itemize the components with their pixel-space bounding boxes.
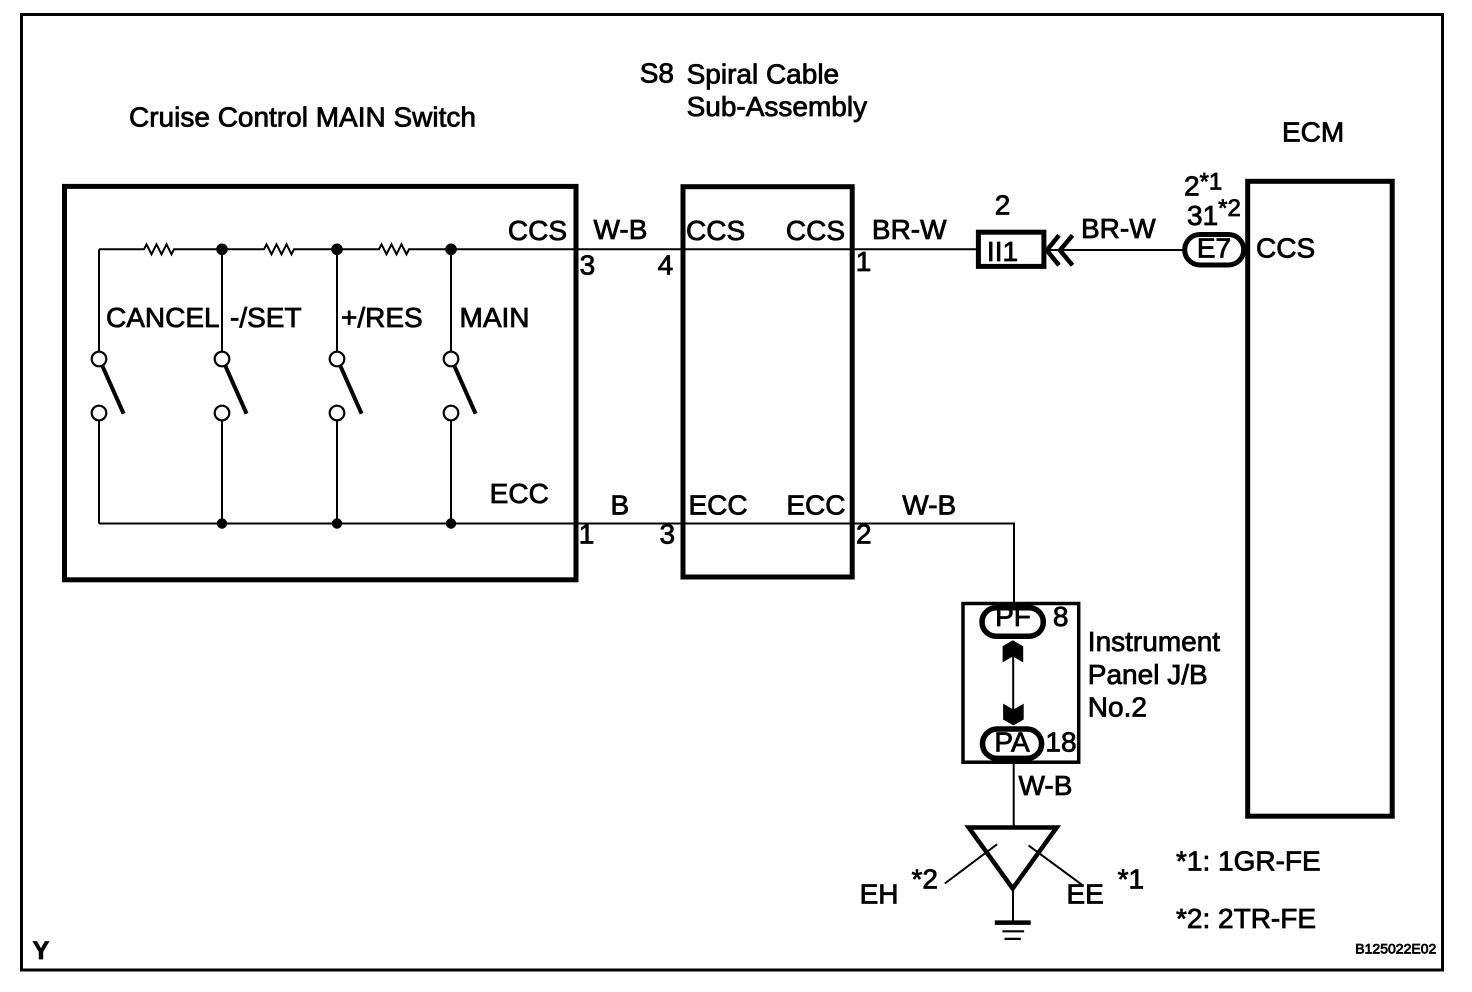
svg-text:W-B: W-B [1019, 770, 1073, 801]
svg-text:MAIN: MAIN [460, 302, 530, 333]
wire: PA to ground triangle [1013, 762, 1015, 826]
svg-text:B: B [610, 490, 629, 521]
wire: SET branch vertical [221, 249, 223, 352]
svg-text:EE: EE [1067, 879, 1104, 910]
connector II1 [978, 232, 1044, 266]
ECM box [1248, 181, 1393, 816]
svg-text:EH: EH [860, 879, 899, 910]
svg-text:1: 1 [856, 246, 872, 277]
svg-text:2: 2 [995, 190, 1011, 221]
leader line EH [945, 844, 997, 883]
svg-text:BR-W: BR-W [1081, 213, 1156, 244]
svg-text:ECM: ECM [1282, 116, 1344, 147]
svg-text:18: 18 [1045, 727, 1076, 758]
node: junction dot SET top [216, 244, 228, 256]
svg-text:CCS: CCS [786, 215, 845, 246]
node: junction dot SET bottom [217, 518, 227, 528]
svg-text:CCS: CCS [1256, 233, 1315, 264]
arrow up (inside J/B) [1003, 640, 1024, 662]
svg-text:W-B: W-B [902, 490, 956, 521]
svg-text:ECC: ECC [490, 478, 549, 509]
wire: triangle to ground [1012, 889, 1014, 922]
leader line EE [1029, 845, 1082, 884]
svg-text:PF: PF [995, 601, 1031, 632]
wire: MAIN lower vertical [450, 420, 452, 523]
svg-text:4: 4 [658, 250, 674, 281]
svg-text:3: 3 [660, 519, 676, 550]
svg-text:2: 2 [856, 519, 872, 550]
switch assembly box (Cruise Control MAIN Switch) [65, 186, 577, 579]
svg-text:S8: S8 [640, 58, 674, 89]
svg-text:No.2: No.2 [1088, 692, 1147, 723]
spiral cable box S8 [683, 187, 852, 577]
node: junction dot MAIN top [445, 244, 457, 256]
node: junction dot RES bottom [332, 518, 342, 528]
svg-text:Y: Y [33, 937, 50, 965]
svg-text:*2: *2 [912, 864, 938, 895]
svg-text:CCS: CCS [508, 215, 567, 246]
svg-text:+/RES: +/RES [341, 302, 423, 333]
wire: CANCEL lower vertical [98, 420, 100, 523]
switch +/RES [330, 302, 423, 420]
wire: RES lower vertical [336, 420, 338, 523]
connector PF [982, 608, 1043, 636]
svg-text:Instrument: Instrument [1088, 626, 1220, 657]
connector PA [983, 729, 1042, 758]
svg-text:PA: PA [994, 727, 1030, 758]
wire: RES branch vertical [336, 249, 338, 352]
svg-text:8: 8 [1053, 601, 1069, 632]
svg-text:B125022E02: B125022E02 [1355, 941, 1436, 957]
svg-text:ECC: ECC [786, 490, 845, 521]
svg-text:BR-W: BR-W [872, 214, 947, 245]
node: junction dot MAIN bottom [446, 518, 456, 528]
switch MAIN [444, 302, 530, 420]
arrow down (inside J/B) [1003, 704, 1024, 726]
ground triangle (splice) [969, 828, 1057, 889]
wire: CANCEL branch vertical [98, 249, 100, 352]
switch CANCEL [92, 302, 220, 420]
junction block: Instrument Panel J/B No.2 [963, 604, 1079, 763]
wire: MAIN branch vertical [450, 249, 452, 352]
node: junction dot RES top [331, 244, 343, 256]
svg-text:Sub-Assembly: Sub-Assembly [687, 91, 868, 122]
svg-text:*1: 1GR-FE: *1: 1GR-FE [1176, 846, 1321, 877]
svg-text:1: 1 [579, 519, 595, 550]
svg-text:3: 3 [580, 250, 596, 281]
svg-text:E7: E7 [1197, 233, 1231, 264]
svg-text:Cruise Control MAIN Switch: Cruise Control MAIN Switch [129, 102, 476, 133]
wire: ECC bus to J/B [99, 524, 1014, 603]
switch -/SET [215, 302, 302, 420]
connector symbol: double chevron [1047, 235, 1059, 265]
svg-text:ECC: ECC [689, 490, 748, 521]
svg-text:II1: II1 [987, 236, 1018, 267]
svg-text:Panel J/B: Panel J/B [1088, 659, 1208, 690]
wire: CCS bus with resistors [99, 244, 976, 254]
svg-text:-/SET: -/SET [230, 302, 302, 333]
wire: BR-W segment to E7 [1047, 249, 1184, 251]
svg-text:*1: *1 [1118, 864, 1144, 895]
connector E7 [1185, 235, 1244, 266]
svg-text:Spiral Cable: Spiral Cable [687, 59, 840, 90]
wire between arrows [1012, 650, 1014, 716]
svg-text:CCS: CCS [686, 215, 745, 246]
wire: SET lower vertical [221, 420, 223, 523]
svg-text:*2: 2TR-FE: *2: 2TR-FE [1176, 903, 1316, 934]
svg-text:W-B: W-B [594, 214, 648, 245]
svg-text:CANCEL: CANCEL [106, 302, 220, 333]
ground symbol [995, 923, 1031, 939]
